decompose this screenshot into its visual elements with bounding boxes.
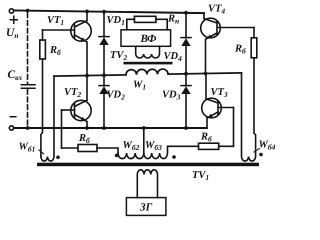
- plus sign: [10, 16, 17, 23]
- block ВФ rectifier-filter: [121, 30, 171, 47]
- resistor Rб (VT3): [199, 143, 234, 149]
- diode VD2: [99, 75, 109, 126]
- node VD4 on rail: [184, 11, 188, 15]
- wire VT3 base down: [233, 108, 235, 147]
- transistor VT2: [62, 76, 92, 127]
- svg-text:W1: W1: [133, 80, 146, 92]
- transformer TV2 core: [124, 62, 173, 65]
- winding Wб4: [242, 58, 256, 161]
- node mid VD1-VD2: [102, 73, 106, 77]
- node VD2 on rail: [102, 126, 106, 130]
- svg-text:VD1: VD1: [107, 15, 125, 27]
- terminal - input negative: [9, 126, 13, 130]
- wire bottom rail: [14, 127, 207, 129]
- node Wб1 polarity dot: [56, 156, 60, 160]
- winding Wб2: [118, 153, 144, 159]
- transistor VT3: [202, 74, 234, 127]
- resistor Rн load: [127, 16, 167, 30]
- svg-text:Rн: Rн: [167, 14, 179, 26]
- node VD1 on rail: [102, 10, 106, 14]
- terminal + input positive: [9, 9, 13, 13]
- node Wб3 polarity dot: [172, 155, 176, 159]
- winding TV1 primary: [137, 170, 157, 198]
- winding Wб3: [144, 146, 199, 158]
- svg-text:Wб3: Wб3: [145, 140, 162, 152]
- svg-text:Rб: Rб: [49, 45, 61, 57]
- svg-text:VD4: VD4: [164, 51, 183, 63]
- resistor Rб (VT4): [251, 28, 257, 58]
- svg-text:Uп: Uп: [6, 27, 18, 40]
- wire top rail: [14, 10, 204, 13]
- svg-text:ЗГ: ЗГ: [139, 201, 153, 213]
- node dashed-bottom: [26, 126, 30, 130]
- diode VD4: [181, 13, 191, 74]
- wire corner to VT4 collector: [203, 13, 205, 19]
- svg-text:VD2: VD2: [107, 90, 126, 102]
- transistor VT4: [201, 18, 254, 73]
- svg-text:VT2: VT2: [64, 87, 81, 99]
- wire TV1 centre tap: [143, 128, 145, 153]
- svg-text:VT4: VT4: [208, 4, 225, 16]
- svg-text:Rб: Rб: [78, 133, 90, 145]
- resistor R6 (VT1 base): [40, 30, 46, 157]
- svg-text:TV1: TV1: [192, 170, 209, 182]
- wire VT2 base down: [61, 110, 63, 148]
- winding Wб1: [41, 76, 54, 161]
- winding TV2 secondary: [136, 46, 160, 58]
- wire bridge mid line with winding W1: [54, 68, 242, 76]
- node VT2 emitter on rail: [85, 126, 89, 130]
- node mid VD3-VD4: [184, 72, 188, 76]
- block ЗГ master oscillator: [126, 198, 165, 216]
- node VT1 collector on rail: [85, 10, 89, 14]
- diode VD3: [181, 74, 191, 127]
- diode VD1: [99, 12, 109, 76]
- node Wб4 polarity dot: [259, 153, 263, 157]
- svg-text:VT1: VT1: [47, 15, 64, 27]
- svg-text:Cвх: Cвх: [8, 69, 23, 82]
- svg-text:VT3: VT3: [211, 87, 228, 99]
- transformer TV1 core: [37, 163, 259, 167]
- capacitor Cвх: [21, 85, 35, 89]
- transistor VT1: [43, 11, 92, 75]
- svg-text:Wб4: Wб4: [259, 140, 276, 152]
- svg-text:Wб2: Wб2: [123, 140, 140, 152]
- node mid VT4 emitter: [204, 72, 208, 76]
- node TV1 centre tap on rail: [142, 126, 146, 130]
- wire dashed input link: [27, 13, 29, 84]
- svg-text:ВФ: ВФ: [140, 33, 158, 45]
- node mid VT1 emitter: [85, 74, 89, 78]
- svg-text:Rб: Rб: [234, 44, 246, 56]
- resistor Rб (VT2): [62, 145, 119, 154]
- node Wб2 polarity dot: [115, 154, 119, 158]
- minus sign: [10, 116, 16, 118]
- svg-text:VD3: VD3: [162, 90, 181, 102]
- svg-text:TV2: TV2: [110, 50, 127, 62]
- svg-text:Rб: Rб: [200, 132, 212, 144]
- node dashed-top: [26, 9, 30, 13]
- node VD3 on rail: [184, 126, 188, 130]
- svg-text:Wб1: Wб1: [19, 142, 36, 154]
